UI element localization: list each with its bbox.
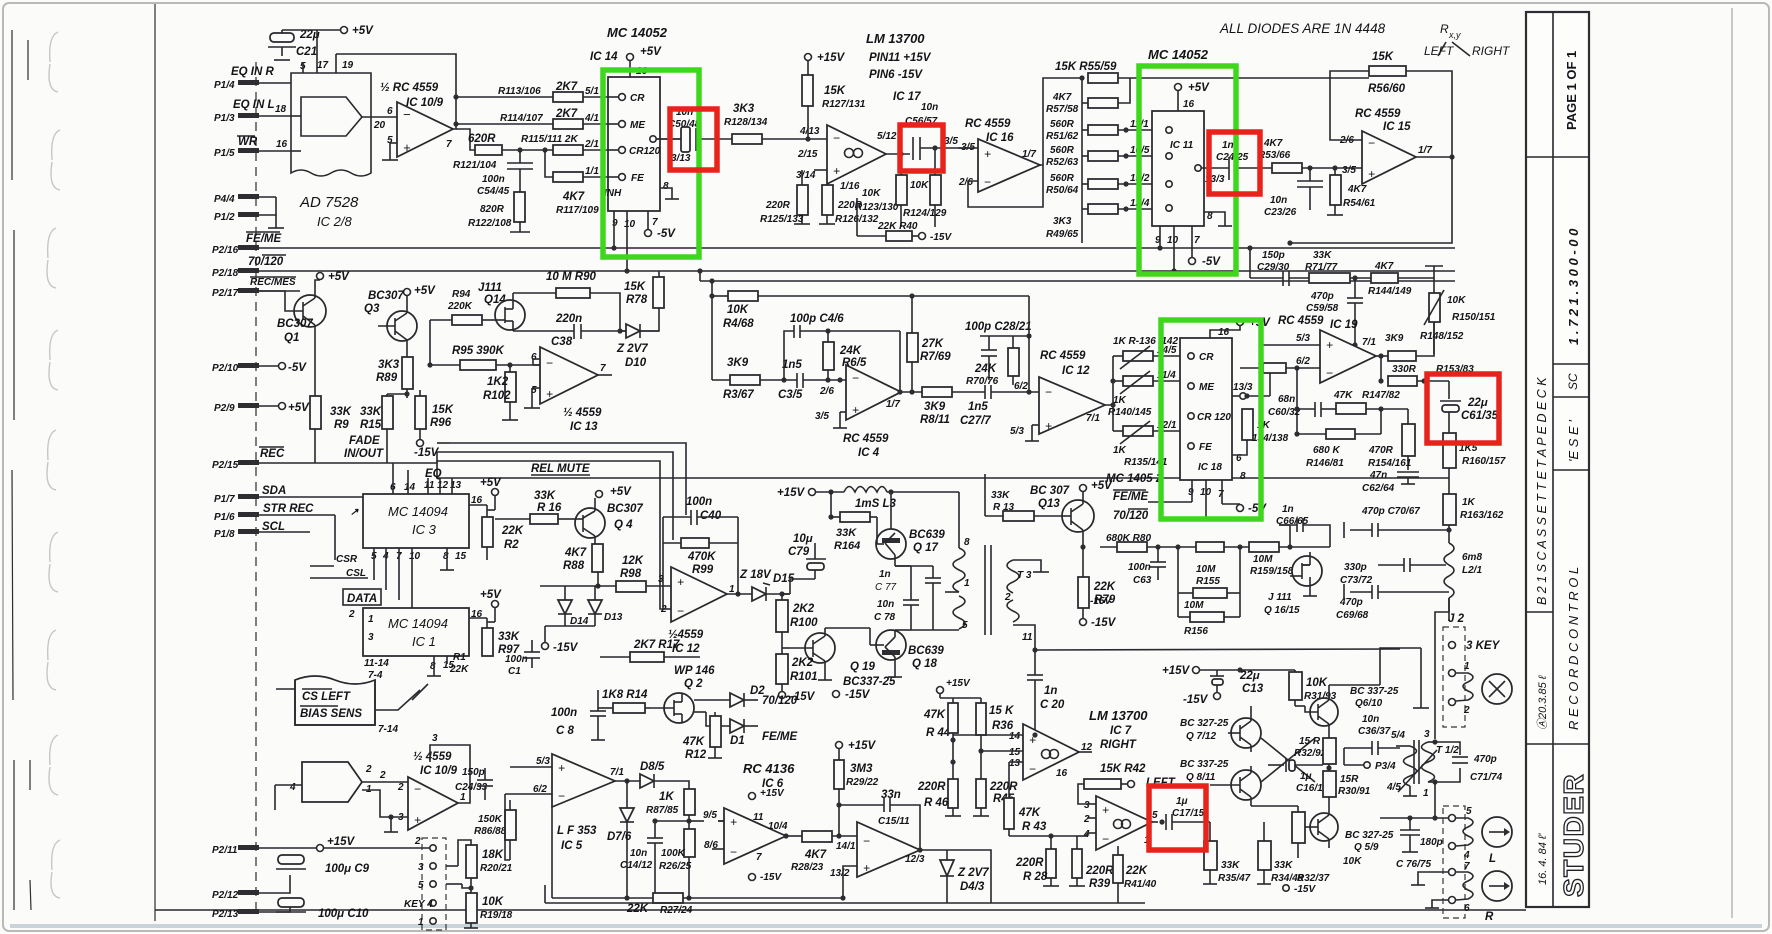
capacitor 68n C60/32 feedback: [1268, 394, 1336, 418]
svg-text:DATA: DATA: [347, 593, 377, 605]
svg-text:R79: R79: [1094, 594, 1116, 606]
resistor 1K R75/137: [1240, 338, 1320, 434]
svg-text:1: 1: [418, 917, 424, 928]
svg-text:2/1: 2/1: [584, 139, 599, 150]
resistor 10K R4/68: [709, 291, 1029, 330]
svg-text:27K: 27K: [921, 338, 944, 350]
OTA op-amp IC17: [796, 125, 910, 192]
svg-text:R164: R164: [834, 540, 860, 552]
op-amp IC4: [815, 331, 903, 459]
svg-text:16: 16: [1056, 768, 1068, 779]
svg-text:Q 16/15: Q 16/15: [1264, 605, 1300, 616]
svg-text:R98: R98: [620, 568, 642, 580]
resistor 3K3 R128/134: [724, 103, 827, 144]
svg-text:IC 7: IC 7: [1110, 725, 1132, 737]
REL MUTE net: [437, 463, 1449, 478]
svg-text:3K3: 3K3: [1053, 216, 1072, 227]
svg-text:4K7: 4K7: [1347, 184, 1367, 195]
svg-text:R35/47: R35/47: [1218, 873, 1251, 884]
resistor 560R R51/62: [1046, 119, 1166, 142]
capacitor 180p C76/75: [1396, 818, 1443, 870]
transistor BC327-25 Q7/12: [1180, 714, 1261, 752]
resistor 220R R46: [917, 779, 961, 816]
wires to J2 top: [1329, 598, 1449, 739]
svg-text:P2/15: P2/15: [212, 460, 239, 471]
svg-text:IC 17: IC 17: [893, 91, 921, 103]
pot 1K R135/141: [1113, 420, 1188, 468]
svg-text:C14/12: C14/12: [620, 860, 653, 871]
svg-text:+15V: +15V: [327, 836, 356, 848]
svg-text:BC 337-25: BC 337-25: [1180, 759, 1229, 770]
svg-text:620R: 620R: [468, 133, 496, 145]
red highlight box C61/35: [1427, 374, 1499, 443]
svg-text:12: 12: [437, 480, 449, 491]
svg-text:-15V: -15V: [845, 689, 871, 701]
svg-text:+15V: +15V: [777, 487, 806, 499]
svg-text:3: 3: [418, 862, 424, 873]
svg-text:3M3: 3M3: [850, 763, 873, 775]
svg-text:16. 4. 84 ℓ': 16. 4. 84 ℓ': [1537, 833, 1549, 885]
svg-text:R71/77: R71/77: [1305, 262, 1338, 273]
svg-text:+5V: +5V: [352, 25, 374, 37]
svg-text:+15V: +15V: [946, 678, 971, 689]
svg-text:CS LEFT: CS LEFT: [302, 691, 351, 703]
svg-text:6m8: 6m8: [1462, 552, 1482, 563]
svg-text:R3/67: R3/67: [723, 389, 754, 401]
svg-text:+: +: [863, 861, 870, 875]
left margin torn edge line: [12, 30, 14, 910]
svg-text:150p: 150p: [1262, 250, 1285, 261]
pot bus from IC12: [1105, 356, 1116, 431]
svg-text:R32/92: R32/92: [1294, 748, 1327, 759]
svg-text:+: +: [852, 403, 859, 417]
FET J111 Q16/15: [1264, 552, 1330, 616]
svg-text:11-14: 11-14: [364, 658, 389, 669]
connector pin P2/11 +15V: [212, 836, 356, 856]
capacitor 100n C63: [1090, 547, 1166, 607]
capacitor 10u C79: [788, 533, 826, 594]
svg-text:WP 146: WP 146: [674, 665, 715, 677]
resistor 33K R9: [310, 396, 352, 463]
cross coupling wires: [1251, 706, 1315, 782]
svg-text:1/7: 1/7: [1418, 145, 1432, 156]
resistor row 4 to 1/1: [542, 147, 613, 216]
resistor 620R R121/104: [453, 129, 553, 171]
resistor 560R R52/63: [1046, 145, 1166, 168]
svg-text:33K: 33K: [534, 490, 556, 502]
svg-text:IC 10/9: IC 10/9: [406, 97, 444, 109]
svg-text:R50/64: R50/64: [1046, 185, 1079, 196]
svg-text:22K: 22K: [1093, 581, 1116, 593]
red highlight box C50/48: [670, 109, 717, 170]
svg-text:BC307: BC307: [277, 318, 313, 330]
svg-text:RC 4559: RC 4559: [1278, 315, 1324, 327]
svg-text:C59/58: C59/58: [1306, 303, 1339, 314]
resistor 4K7 R144/149: [1368, 261, 1416, 297]
svg-text:11: 11: [424, 480, 435, 491]
svg-text:+: +: [558, 761, 565, 775]
red highlight box C24/25: [1209, 132, 1260, 194]
bottom long wire: [545, 885, 1145, 903]
svg-text:330R: 330R: [1392, 364, 1417, 375]
svg-text:LM 13700: LM 13700: [866, 31, 925, 46]
resistor 33K R97: [482, 608, 520, 656]
svg-text:+5V: +5V: [610, 486, 632, 498]
capacitor 1n C20: [1027, 668, 1065, 735]
+5V terminal: [282, 25, 374, 73]
svg-text:1n: 1n: [879, 569, 891, 580]
transistor BC327-25 Q6/10: [1295, 686, 1399, 733]
svg-text:Z 2V7: Z 2V7: [616, 343, 648, 355]
svg-text:R78: R78: [626, 294, 648, 306]
svg-text:7: 7: [1218, 489, 1224, 500]
connector pin P2/12: [212, 875, 290, 901]
resistor 220R R126/132: [819, 184, 879, 225]
svg-text:C 76/75: C 76/75: [1396, 859, 1431, 870]
svg-text:Q6/10: Q6/10: [1355, 698, 1383, 709]
svg-text:470R: 470R: [1368, 445, 1394, 456]
svg-text:+15V: +15V: [817, 52, 846, 64]
svg-text:4/13: 4/13: [799, 126, 820, 137]
svg-text:ME: ME: [630, 120, 645, 131]
svg-text:7/1: 7/1: [1086, 413, 1100, 424]
svg-text:10K: 10K: [727, 304, 749, 316]
svg-text:4/1: 4/1: [584, 113, 599, 124]
svg-text:10M: 10M: [1253, 554, 1273, 565]
op-amp IC15: [1339, 108, 1432, 184]
svg-text:IC 15: IC 15: [1383, 121, 1411, 133]
svg-text:J 111: J 111: [1268, 592, 1292, 603]
svg-text:3K9: 3K9: [924, 401, 946, 413]
connector pin P1/4: [214, 66, 291, 91]
svg-text:4K7: 4K7: [562, 191, 585, 203]
svg-text:10K: 10K: [910, 180, 929, 191]
resistor 3K3 R49/65: [1046, 198, 1166, 240]
svg-text:T 3: T 3: [1017, 570, 1032, 581]
svg-text:10μ: 10μ: [793, 533, 813, 545]
capacitor 1n5 C27/7: [960, 381, 1039, 427]
svg-text:−: −: [1326, 366, 1333, 380]
svg-text:7/1: 7/1: [1362, 337, 1376, 348]
svg-text:−: −: [730, 845, 737, 859]
connector pin P1/2: [214, 197, 284, 228]
svg-text:P2/12: P2/12: [212, 890, 239, 901]
resistor 150K R86/88: [474, 800, 516, 860]
svg-text:C 20: C 20: [1040, 699, 1065, 711]
resistor 4K7 R88: [563, 544, 603, 589]
svg-text:Q 8/11: Q 8/11: [1186, 772, 1216, 783]
svg-text:−: −: [546, 356, 553, 370]
svg-text:IC 11: IC 11: [1170, 140, 1194, 151]
capacitor 1n5 C3/5: [778, 359, 846, 401]
svg-text:3: 3: [1084, 800, 1090, 811]
svg-text:REC: REC: [260, 448, 285, 460]
svg-text:3K9: 3K9: [727, 357, 749, 369]
svg-text:150K: 150K: [478, 814, 503, 825]
lower DAC polygon: [275, 762, 372, 810]
svg-text:1: 1: [1464, 661, 1470, 672]
OTA LM13700 IC7 RIGHT: [953, 708, 1148, 798]
svg-text:10: 10: [409, 551, 421, 562]
svg-text:+: +: [546, 387, 553, 401]
diode D10 Z2V7: [616, 324, 659, 369]
resistor 10M R159/158: [1249, 525, 1330, 577]
svg-text:R39: R39: [1089, 878, 1111, 890]
transistor BC639 Q17: [876, 489, 945, 566]
svg-text:820R: 820R: [480, 204, 505, 215]
svg-text:LEFT: LEFT: [1424, 44, 1455, 58]
svg-text:13: 13: [1009, 758, 1021, 769]
inductor 6m8 L2/1: [1444, 543, 1482, 621]
wire Q13 chain: [985, 474, 1062, 521]
green highlight box IC14: [603, 70, 699, 257]
transformer T1/2: [1344, 729, 1503, 818]
svg-text:68n: 68n: [1278, 394, 1295, 405]
resistor 2K2 R101: [776, 648, 818, 703]
svg-text:+5V: +5V: [480, 589, 502, 601]
ESE box line: [1553, 469, 1589, 471]
resistor 10K R32/37: [1251, 806, 1362, 884]
svg-text:22K: 22K: [626, 903, 649, 915]
svg-text:470p: 470p: [1310, 291, 1334, 302]
svg-text:10 M R90: 10 M R90: [546, 271, 596, 283]
red highlight box C56/57: [900, 125, 943, 171]
svg-text:R 28: R 28: [1023, 871, 1048, 883]
svg-text:C61/35: C61/35: [1461, 410, 1499, 422]
svg-text:-15V: -15V: [553, 642, 579, 654]
resistor 3K3 R89: [376, 340, 430, 398]
svg-text:3/5: 3/5: [815, 411, 829, 422]
svg-text:Q 5/9: Q 5/9: [1354, 842, 1379, 853]
OTA LM13700 LEFT: [1077, 796, 1158, 850]
svg-text:RC 4559: RC 4559: [965, 118, 1011, 130]
diode Z2V7 D4/3: [920, 850, 991, 903]
svg-text:100p C4/6: 100p C4/6: [790, 313, 844, 325]
svg-text:150p: 150p: [462, 767, 485, 778]
resistor 33K R71/77: [1305, 250, 1371, 283]
svg-text:R34/48: R34/48: [1271, 873, 1304, 884]
svg-text:R: R: [1485, 911, 1494, 923]
resistor 22K R40 and -15V: [857, 198, 952, 243]
svg-text:REC/MES: REC/MES: [250, 277, 296, 288]
capacitor C50/48: [656, 107, 732, 164]
svg-text:R26/25: R26/25: [659, 861, 692, 872]
svg-text:RIGHT: RIGHT: [1472, 44, 1511, 58]
svg-text:IC 19: IC 19: [1330, 319, 1358, 331]
connector plug meters: [1411, 806, 1512, 923]
transistor BC307 Q3: [364, 285, 436, 357]
svg-text:10K: 10K: [1343, 856, 1362, 867]
svg-text:1n: 1n: [1044, 685, 1057, 697]
svg-text:1: 1: [460, 792, 466, 803]
svg-text:10n: 10n: [630, 848, 647, 859]
svg-text:+5V: +5V: [1188, 82, 1210, 94]
svg-text:15 K: 15 K: [989, 705, 1014, 717]
svg-text:EQ IN L: EQ IN L: [233, 99, 275, 111]
svg-text:70/120: 70/120: [762, 695, 798, 707]
resistor 1K8 R14: [598, 689, 650, 713]
IC MC14052 IC14: [590, 25, 683, 274]
op-amp IC19: [1259, 315, 1376, 383]
resistor 10K R31/93: [1240, 670, 1337, 706]
svg-text:REL MUTE: REL MUTE: [531, 463, 590, 475]
svg-text:D13: D13: [604, 612, 623, 623]
svg-text:15K: 15K: [1372, 51, 1394, 63]
capacitor 220n C38: [513, 313, 623, 348]
svg-text:BC 327-25: BC 327-25: [1345, 830, 1394, 841]
svg-text:R123/130: R123/130: [855, 202, 899, 213]
svg-text:D4/3: D4/3: [960, 881, 985, 893]
feedback wire pin19: [336, 54, 459, 129]
svg-text:J 2: J 2: [1448, 613, 1465, 625]
svg-text:4/5: 4/5: [1386, 782, 1401, 793]
capacitor 1n C66/65: [1276, 504, 1330, 547]
svg-text:IC 1: IC 1: [412, 634, 436, 649]
svg-text:1μ: 1μ: [1300, 771, 1312, 782]
diode D13: [542, 586, 623, 654]
svg-text:+15V: +15V: [1162, 665, 1191, 677]
transistor BC307 Q13: [1030, 480, 1113, 550]
svg-text:R49/65: R49/65: [1046, 229, 1079, 240]
svg-text:47K: 47K: [682, 736, 705, 748]
svg-text:3: 3: [432, 733, 438, 744]
svg-text:-15V: -15V: [414, 447, 440, 459]
svg-text:R155: R155: [1196, 576, 1220, 587]
resistor 2K2 R100: [776, 591, 818, 648]
svg-text:P1/6: P1/6: [214, 512, 235, 523]
CS LEFT BIAS SENS box: [276, 676, 428, 810]
svg-text:MC 14094: MC 14094: [388, 504, 448, 519]
svg-text:RC 4559: RC 4559: [843, 433, 889, 445]
svg-text:R56/60: R56/60: [1368, 83, 1406, 95]
svg-text:−: −: [852, 371, 859, 385]
svg-text:1K: 1K: [659, 791, 674, 803]
svg-text:R113/106: R113/106: [498, 86, 541, 97]
connector pin P1/3: [214, 99, 291, 124]
svg-text:P1/2: P1/2: [214, 212, 235, 223]
svg-text:R29/22: R29/22: [846, 777, 879, 788]
svg-text:R150/151: R150/151: [1452, 312, 1496, 323]
resistor 680K R80: [1100, 533, 1249, 552]
svg-text:C3/5: C3/5: [778, 389, 803, 401]
svg-text:100μ C9: 100μ C9: [325, 863, 370, 875]
resistor 33K R35/47: [1203, 822, 1251, 884]
svg-text:7-14: 7-14: [378, 724, 398, 735]
svg-text:10n: 10n: [921, 102, 938, 113]
svg-text:6: 6: [1464, 903, 1470, 914]
svg-text:10M: 10M: [1184, 600, 1204, 611]
svg-text:−: −: [1045, 385, 1052, 399]
svg-text:1n5: 1n5: [968, 401, 988, 413]
svg-text:+15V: +15V: [848, 740, 877, 752]
resistor 220R R45: [973, 779, 1018, 816]
svg-text:5/3: 5/3: [1010, 426, 1024, 437]
svg-text:EQ IN R: EQ IN R: [231, 66, 275, 78]
capacitor 470p C59/58: [1306, 278, 1363, 348]
svg-text:P1/5: P1/5: [214, 148, 235, 159]
connector pin P4/4: [214, 194, 276, 205]
svg-text:P1/7: P1/7: [214, 494, 235, 505]
svg-text:R27/24: R27/24: [660, 905, 693, 916]
svg-text:10: 10: [624, 219, 636, 230]
svg-text:IC 14: IC 14: [590, 51, 618, 63]
output bus down: [1287, 157, 1452, 246]
resistor 100K R26/25: [659, 829, 695, 901]
right thin vertical line: [1731, 8, 1733, 918]
svg-text:3: 3: [1424, 729, 1430, 740]
svg-text:1K: 1K: [1462, 497, 1476, 508]
svg-text:B 2 1 S C A S S E T T E T A: B 2 1 S C A S S E T T E T A P E D E C K: [1535, 377, 1549, 605]
svg-text:33K: 33K: [1313, 250, 1332, 261]
svg-text:22K: 22K: [449, 664, 469, 675]
70/120 net line: [259, 270, 857, 272]
bus line: [697, 268, 1455, 380]
svg-text:+: +: [1045, 419, 1052, 433]
capacitor 150p C29/30: [1247, 245, 1309, 286]
capacitor 470p C70/67: [1344, 506, 1452, 538]
svg-text:10K: 10K: [1306, 677, 1328, 689]
svg-text:R146/81: R146/81: [1306, 458, 1344, 469]
op-amp LF353 IC5: [505, 754, 630, 860]
svg-text:1/16: 1/16: [840, 181, 860, 192]
svg-text:R128/134: R128/134: [724, 117, 768, 128]
svg-text:2: 2: [1463, 705, 1470, 716]
svg-text:FE/ME: FE/ME: [246, 233, 281, 245]
transistor BC307 Q1: [259, 271, 350, 396]
svg-text:FE: FE: [1199, 442, 1212, 453]
resistor 4K7 R54/61: [1327, 168, 1376, 215]
resistor 3K9 R3/67: [712, 357, 797, 401]
svg-text:-15V: -15V: [1294, 884, 1316, 895]
resistor 15K R56/60 feedback: [1330, 51, 1455, 160]
svg-text:-15V: -15V: [1091, 617, 1117, 629]
svg-text:R15: R15: [360, 419, 382, 431]
svg-text:R127/131: R127/131: [822, 99, 866, 110]
svg-text:C38: C38: [551, 336, 573, 348]
svg-text:P1/4: P1/4: [214, 80, 235, 91]
svg-text:ME: ME: [1199, 382, 1214, 393]
svg-text:-5V: -5V: [1202, 256, 1221, 268]
svg-text:BC307: BC307: [607, 503, 643, 515]
diode D15 Z18V: [727, 569, 795, 601]
svg-text:4K7: 4K7: [1263, 138, 1283, 149]
capacitor 100n C8: [551, 690, 606, 740]
svg-text:4: 4: [289, 782, 296, 793]
resistor 3K9 R148/152: [1376, 322, 1464, 361]
svg-text:−: −: [403, 107, 411, 122]
svg-text:R 43: R 43: [1022, 821, 1047, 833]
resistor 15K R78: [620, 271, 664, 331]
svg-text:BIAS SENS: BIAS SENS: [300, 708, 362, 720]
svg-text:-5V: -5V: [288, 362, 307, 374]
svg-text:7: 7: [1194, 235, 1200, 246]
svg-text:Q 2: Q 2: [684, 678, 703, 690]
svg-text:15K: 15K: [624, 281, 646, 293]
svg-text:4: 4: [1463, 850, 1470, 861]
op-amp IC12 lower: [660, 543, 735, 655]
svg-text:MC 14052: MC 14052: [1148, 47, 1209, 62]
svg-text:R 16: R 16: [537, 502, 562, 514]
svg-text:R8/11: R8/11: [920, 414, 950, 426]
svg-text:6/2: 6/2: [1014, 381, 1028, 392]
svg-text:C71/74: C71/74: [1470, 772, 1503, 783]
svg-text:+5V: +5V: [414, 285, 436, 297]
resistor 1K5 R160/157: [1443, 433, 1506, 494]
resistor R115/111 2K: [521, 134, 622, 155]
svg-text:10n: 10n: [877, 599, 894, 610]
svg-text:+: +: [984, 147, 991, 161]
svg-text:R87/85: R87/85: [646, 805, 679, 816]
